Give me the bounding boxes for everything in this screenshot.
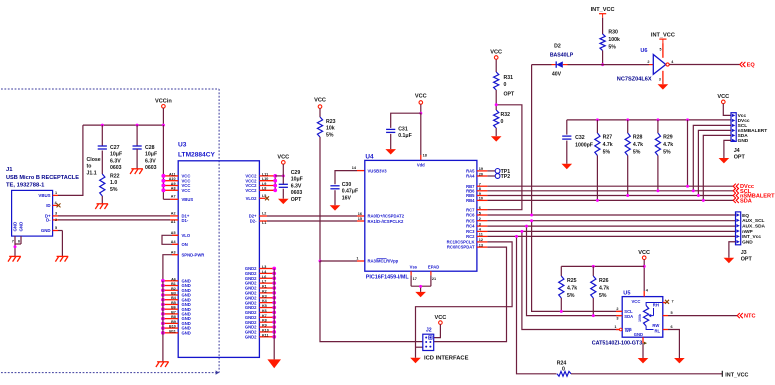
svg-text:A2: A2 <box>171 212 176 216</box>
wire RC6 EQ row <box>487 214 735 216</box>
svg-text:RC2: RC2 <box>466 234 475 239</box>
svg-text:5: 5 <box>671 311 673 315</box>
wire U4 VUSB3V3 to C30 <box>357 170 365 172</box>
svg-text:0603: 0603 <box>291 190 303 196</box>
U3 pins A5 A4 VLO ON tied loop <box>162 235 178 244</box>
svg-text:1: 1 <box>356 256 358 260</box>
wire RC7 to R31 node <box>487 105 522 210</box>
svg-text:R32: R32 <box>501 112 511 118</box>
svg-text:SPND-PWR: SPND-PWR <box>182 252 205 257</box>
resistor R23 <box>317 117 322 137</box>
wire RW to NTC <box>668 315 737 317</box>
svg-text:40V: 40V <box>552 71 562 77</box>
svg-text:R23: R23 <box>326 119 336 125</box>
svg-text:5%: 5% <box>599 293 607 299</box>
svg-text:1: 1 <box>55 191 57 195</box>
svg-text:K5: K5 <box>262 304 267 308</box>
wire J1 GND pin to ground <box>58 230 62 232</box>
svg-text:4.7k: 4.7k <box>663 142 673 148</box>
svg-text:VCCin: VCCin <box>155 99 172 105</box>
dashed isolation boundary top <box>1 88 219 90</box>
wire RC1 ICSPCLK to J2 <box>416 242 513 358</box>
svg-text:RC0/ICSPDAT: RC0/ICSPDAT <box>447 245 475 250</box>
svg-text:U6: U6 <box>640 48 647 54</box>
svg-text:L2: L2 <box>262 212 266 216</box>
svg-text:OPT: OPT <box>734 155 746 161</box>
U5 potentiometer element <box>644 306 649 327</box>
svg-text:B7: B7 <box>171 310 176 314</box>
capacitor C27 <box>101 125 103 146</box>
svg-text:7: 7 <box>12 240 14 244</box>
svg-text:D1-: D1- <box>182 218 189 223</box>
svg-text:RC6: RC6 <box>466 213 475 218</box>
svg-text:U5: U5 <box>623 291 630 297</box>
resistor R29 <box>656 118 659 121</box>
svg-text:13: 13 <box>479 243 483 247</box>
svg-text:C27: C27 <box>110 145 120 151</box>
connector J4 <box>731 113 736 142</box>
svg-text:0603: 0603 <box>110 165 122 171</box>
svg-text:12: 12 <box>479 238 483 242</box>
svg-text:20: 20 <box>479 172 483 176</box>
svg-text:C31: C31 <box>398 127 408 133</box>
svg-text:3: 3 <box>479 222 481 226</box>
svg-text:L8: L8 <box>262 187 266 191</box>
svg-text:10μF: 10μF <box>291 177 303 183</box>
wire EQ input net <box>532 64 552 66</box>
svg-text:1000pF: 1000pF <box>575 142 593 148</box>
test point TP2 <box>487 175 495 177</box>
wire RB5 nSMBALERT row <box>487 195 733 197</box>
svg-text:INT_VCC: INT_VCC <box>591 7 615 13</box>
U3 pin A7 VBUS tied to VCC <box>170 198 178 200</box>
resistor R27 <box>596 118 599 121</box>
svg-text:A11: A11 <box>169 172 176 176</box>
wire MCLR down to ICD J2 <box>320 261 423 342</box>
svg-text:NTC: NTC <box>744 314 756 320</box>
svg-text:11: 11 <box>479 233 483 237</box>
svg-text:D2: D2 <box>554 44 561 50</box>
wire D+ J1 to U3 <box>58 215 170 217</box>
svg-text:RW: RW <box>652 323 659 328</box>
svg-text:GND: GND <box>634 332 643 337</box>
svg-text:5%: 5% <box>567 293 575 299</box>
wire RB6 SCL row <box>487 190 733 192</box>
U4 bottom pins Vss 17 EPAD 21 <box>410 271 412 275</box>
VCC rail to R25 R26 <box>561 265 644 267</box>
U5 RL pin 6 <box>646 326 653 330</box>
connector J3 <box>736 212 741 245</box>
svg-text:TP2: TP2 <box>501 174 511 180</box>
svg-text:10μF: 10μF <box>110 152 122 158</box>
U5 pin 2 SCL stub <box>616 310 622 312</box>
svg-text:0.47μF: 0.47μF <box>342 189 358 195</box>
svg-text:TE, 1932788-1: TE, 1932788-1 <box>6 183 45 189</box>
svg-text:B2: B2 <box>171 287 176 291</box>
svg-text:VCC: VCC <box>717 94 729 100</box>
svg-text:6.3V: 6.3V <box>145 158 156 164</box>
svg-text:L1: L1 <box>262 221 266 225</box>
svg-text:R26: R26 <box>599 278 609 284</box>
svg-text:BAS40LP: BAS40LP <box>550 52 574 58</box>
svg-text:RB4: RB4 <box>466 198 475 203</box>
svg-text:4.7k: 4.7k <box>567 285 577 291</box>
dashed isolation boundary bottom <box>1 372 219 374</box>
svg-text:R22: R22 <box>110 173 120 179</box>
svg-text:ID: ID <box>46 203 50 208</box>
U3 left GND pins A6 B1-B11 <box>163 280 178 282</box>
svg-text:WP: WP <box>625 328 632 333</box>
wire RC4 AUX_SDA row <box>487 225 735 227</box>
VCC port above J4 <box>722 100 726 104</box>
svg-text:9: 9 <box>479 192 481 196</box>
svg-text:5%: 5% <box>110 187 118 193</box>
svg-text:5: 5 <box>660 48 662 52</box>
svg-text:0: 0 <box>504 82 507 88</box>
svg-text:NC7SZ04L6X: NC7SZ04L6X <box>617 77 652 83</box>
svg-text:to: to <box>87 164 92 170</box>
test point TP1 <box>487 170 495 172</box>
svg-text:VCC: VCC <box>638 250 650 256</box>
ground under J3 <box>724 258 735 263</box>
capacitor C29 <box>279 183 288 185</box>
svg-text:L6: L6 <box>262 275 266 279</box>
wire D2 to R30 node to U6 input <box>568 64 603 66</box>
svg-text:16V: 16V <box>342 195 352 201</box>
wire R23 to MCLR and J2 <box>319 137 321 261</box>
svg-text:RL: RL <box>655 328 661 333</box>
svg-text:SDA: SDA <box>624 314 633 319</box>
ground under J4 <box>719 158 730 163</box>
svg-text:7: 7 <box>479 183 481 187</box>
svg-text:A3: A3 <box>171 250 176 254</box>
svg-text:A8: A8 <box>171 187 176 191</box>
svg-text:15: 15 <box>358 217 362 221</box>
wire VCC to J4 pin1 <box>723 104 731 116</box>
svg-text:J2: J2 <box>426 328 432 334</box>
svg-text:EQ: EQ <box>742 213 749 219</box>
J1 pin 3 D+ stub <box>53 215 58 217</box>
svg-text:B11: B11 <box>169 329 176 333</box>
svg-text:OPT: OPT <box>504 92 515 98</box>
wire RL to ground <box>668 330 679 359</box>
svg-text:C29: C29 <box>291 170 301 176</box>
svg-text:VCC: VCC <box>490 49 502 55</box>
ground U3 right <box>267 359 281 368</box>
svg-text:OPT: OPT <box>291 197 302 203</box>
svg-text:A6: A6 <box>171 277 176 281</box>
wire RC3 nWP row <box>487 230 735 232</box>
svg-text:SDA: SDA <box>740 198 752 204</box>
svg-text:CAT5140ZI-100-GT3: CAT5140ZI-100-GT3 <box>592 341 643 347</box>
svg-text:VCC: VCC <box>277 155 289 161</box>
wire R24 to INT_VCC port <box>571 373 722 375</box>
junction VCC U5 rail <box>643 265 646 268</box>
svg-text:GND: GND <box>738 138 749 144</box>
wire J3 GND to ground <box>729 242 736 258</box>
svg-text:B5: B5 <box>171 301 176 305</box>
ground under U4 Vss <box>415 292 426 297</box>
svg-text:B9: B9 <box>171 320 176 324</box>
off-page connector nSMBALERT <box>733 193 736 198</box>
svg-text:J1: J1 <box>6 167 13 173</box>
svg-text:5%: 5% <box>633 150 641 156</box>
svg-text:10k: 10k <box>326 126 335 132</box>
svg-text:U3: U3 <box>178 142 187 149</box>
ground under C32 <box>562 164 573 169</box>
wire VCC to J2 <box>434 324 441 337</box>
svg-text:GND2: GND2 <box>245 334 257 339</box>
capacitor C30 <box>330 185 339 187</box>
svg-text:ICD INTERFACE: ICD INTERFACE <box>424 356 469 362</box>
svg-text:7: 7 <box>672 300 674 304</box>
svg-text:VUSB3V3: VUSB3V3 <box>368 168 388 173</box>
U5 GND stub to ground <box>642 337 644 343</box>
svg-text:A10: A10 <box>169 177 176 181</box>
svg-text:EPAD: EPAD <box>428 265 439 270</box>
svg-text:R31: R31 <box>504 75 514 81</box>
wire U6 output to EQ <box>669 64 740 66</box>
svg-text:Vss: Vss <box>410 265 418 270</box>
svg-text:AUX_SDA: AUX_SDA <box>742 224 765 230</box>
junction Vdd <box>419 112 422 115</box>
svg-text:R30: R30 <box>608 29 618 35</box>
capacitor C31 <box>386 128 395 130</box>
off-page connector SCL <box>733 188 736 193</box>
svg-text:R25: R25 <box>567 278 577 284</box>
wire RC0 ICSPDAT to J2 <box>434 247 507 342</box>
U5 pin 4 VCC stub <box>643 291 645 297</box>
svg-text:K3: K3 <box>262 294 267 298</box>
VCCin power port <box>162 105 166 109</box>
svg-text:17: 17 <box>413 277 417 281</box>
J1 pin 5 GND stub <box>53 230 58 232</box>
svg-text:6: 6 <box>479 206 481 210</box>
svg-text:0603: 0603 <box>145 165 157 171</box>
ground under U6 <box>658 84 669 89</box>
wire VCC2 to C29 rail <box>275 175 283 177</box>
svg-text:R28: R28 <box>633 135 643 141</box>
svg-text:C28: C28 <box>145 145 155 151</box>
VCC port above U5 <box>642 256 646 260</box>
svg-text:PIC16F1459-I/ML: PIC16F1459-I/ML <box>366 275 410 281</box>
wire INT_Vcc down to R24 <box>517 236 557 373</box>
wire AUX_SDA down to U5 SDA <box>527 226 623 316</box>
svg-text:8: 8 <box>479 187 481 191</box>
svg-text:R29: R29 <box>663 135 673 141</box>
resistor R26 <box>592 266 594 276</box>
U5 pin 3 SDA stub <box>616 315 622 317</box>
resistor R30 <box>600 34 605 51</box>
wire Vdd to U4 pin 18 <box>420 113 422 155</box>
ground U3 left <box>157 361 169 363</box>
svg-text:21: 21 <box>432 277 436 281</box>
svg-text:K7: K7 <box>262 314 267 318</box>
svg-text:AUX_SCL: AUX_SCL <box>742 218 764 224</box>
ground at J1 shield <box>9 255 21 257</box>
svg-text:INT_Vcc: INT_Vcc <box>742 234 761 240</box>
U3 pins A2 A1 D1+ D1- <box>170 215 178 217</box>
svg-text:A5: A5 <box>171 231 176 235</box>
INT_VCC power bar at U6 <box>659 38 666 40</box>
J1 pin 1 VBUS stub <box>53 194 58 196</box>
junction R30 node <box>601 63 604 66</box>
svg-text:R27: R27 <box>603 135 613 141</box>
U3 pin L5 VLO2 no-connect <box>259 197 265 199</box>
svg-text:K8: K8 <box>262 319 267 323</box>
capacitor C28 <box>136 125 138 146</box>
resistor R28 <box>626 118 629 121</box>
ground under R22 <box>97 203 109 205</box>
svg-text:B3: B3 <box>171 291 176 295</box>
svg-text:OPT: OPT <box>741 257 753 263</box>
svg-text:100k: 100k <box>638 314 642 322</box>
wire EQ row up to D2 <box>531 65 533 215</box>
off-page connector EQ <box>740 62 743 67</box>
svg-text:K2: K2 <box>262 289 267 293</box>
svg-text:6: 6 <box>18 240 20 244</box>
svg-text:A1: A1 <box>171 220 176 224</box>
svg-text:VCC: VCC <box>415 94 427 100</box>
svg-text:J1.1: J1.1 <box>87 170 97 176</box>
svg-text:L7: L7 <box>262 280 266 284</box>
svg-text:4.7k: 4.7k <box>633 142 643 148</box>
junction VCCin rail <box>101 124 104 127</box>
svg-text:VCC: VCC <box>314 97 326 103</box>
svg-text:INT_VCC: INT_VCC <box>725 372 748 378</box>
svg-text:VCC2: VCC2 <box>245 188 257 193</box>
svg-text:C30: C30 <box>342 182 352 188</box>
svg-text:10μF: 10μF <box>145 152 157 158</box>
U5 RH pin no-connect <box>646 303 663 306</box>
svg-text:3: 3 <box>55 211 57 215</box>
wire VBUS up to VCCin rail <box>58 125 83 195</box>
svg-text:C32: C32 <box>575 135 585 141</box>
U3 pin A3 SPND-PWR to GND <box>172 254 178 256</box>
svg-text:2: 2 <box>479 217 481 221</box>
VCC port above C31 <box>419 101 423 105</box>
svg-text:5: 5 <box>55 226 57 230</box>
ground under R32 <box>491 136 502 141</box>
capacitor C32 <box>566 120 568 135</box>
svg-text:Close: Close <box>87 157 101 163</box>
svg-text:5%: 5% <box>608 44 616 50</box>
ground under RL <box>674 358 685 363</box>
INT_VCC power bar above R30 <box>599 13 606 15</box>
U3 VCC2 pins L11 L10 L9 L8 <box>259 175 275 177</box>
svg-text:18: 18 <box>423 154 427 158</box>
svg-text:2: 2 <box>647 60 649 64</box>
svg-text:L9: L9 <box>262 182 266 186</box>
ground under C28 <box>131 168 143 170</box>
svg-text:5%: 5% <box>326 132 334 138</box>
svg-text:5: 5 <box>479 211 481 215</box>
wire to C31 <box>391 113 421 128</box>
svg-text:LTM2884CY: LTM2884CY <box>178 151 215 158</box>
svg-text:INT_VCC: INT_VCC <box>651 32 675 38</box>
wire RB7 DVcc row <box>487 185 733 187</box>
resistor R31 OPT <box>494 72 499 90</box>
wire MCLR to U4 pin 1 <box>320 260 357 262</box>
wire J4 SDA <box>703 135 731 200</box>
svg-text:K1: K1 <box>262 285 267 289</box>
svg-text:VBUS: VBUS <box>38 193 50 198</box>
VCC port above J2 <box>439 321 443 325</box>
svg-text:L10: L10 <box>262 177 268 181</box>
svg-text:EQ: EQ <box>747 63 756 69</box>
svg-text:5%: 5% <box>663 150 671 156</box>
diode D2 BAS40LP <box>552 64 557 66</box>
svg-text:100k: 100k <box>608 37 620 43</box>
svg-text:A9: A9 <box>171 182 176 186</box>
svg-text:GND: GND <box>182 330 191 335</box>
ground under U5 <box>638 358 649 363</box>
svg-text:D2-: D2- <box>250 219 257 224</box>
svg-text:RH: RH <box>653 303 659 308</box>
ground under C31 <box>385 149 396 154</box>
off-page connector NTC <box>737 313 740 318</box>
svg-text:RA1/D-/ICSPCLK2: RA1/D-/ICSPCLK2 <box>368 219 405 224</box>
svg-text:K6: K6 <box>262 309 267 313</box>
svg-text:ON: ON <box>182 242 188 247</box>
VCC port above R31 <box>494 56 498 60</box>
ground under J2 <box>410 358 421 363</box>
svg-text:GND: GND <box>742 240 753 246</box>
svg-text:3: 3 <box>616 316 618 320</box>
wire AUX_SCL down to U5 SCL <box>532 221 623 312</box>
wire J4 nSMBALERT <box>698 130 731 195</box>
svg-text:VLO2: VLO2 <box>246 196 258 201</box>
J1 pin 4 ID no-connect <box>53 204 58 206</box>
svg-text:VCC: VCC <box>434 315 446 321</box>
off-page connector DVcc <box>733 184 736 189</box>
svg-text:K10: K10 <box>262 328 269 332</box>
svg-text:nWP: nWP <box>742 229 753 235</box>
svg-text:B1: B1 <box>171 282 176 286</box>
svg-text:10: 10 <box>479 197 483 201</box>
wire nWP down to U5 WP <box>522 231 620 329</box>
svg-text:19: 19 <box>479 167 483 171</box>
svg-text:J4: J4 <box>734 148 740 154</box>
wire D2+ U3 to U4 RA0 <box>267 215 357 217</box>
dashed isolation boundary vertical <box>218 89 220 373</box>
junction R31 R32 <box>495 103 498 106</box>
svg-text:RA4: RA4 <box>466 174 475 179</box>
svg-text:K11: K11 <box>262 333 269 337</box>
svg-text:1: 1 <box>614 325 616 329</box>
wire D2- U3 to U4 RA1 <box>267 220 357 222</box>
resistor R32 <box>494 110 499 128</box>
svg-text:R24: R24 <box>557 360 567 366</box>
wire RC2 INT_Vcc row <box>487 235 735 237</box>
wire J4 GND to ground <box>724 140 731 158</box>
resistor R22 <box>100 174 105 196</box>
VCC port above C29 <box>282 161 286 165</box>
svg-text:Vdd: Vdd <box>417 162 425 167</box>
svg-text:16: 16 <box>358 212 362 216</box>
wire RC5 AUX_SCL row <box>487 220 735 222</box>
svg-text:A7: A7 <box>171 195 176 199</box>
svg-text:GND: GND <box>13 222 18 232</box>
U3 right GND2 pins L3 L4 L6 L7 K1-K11 <box>259 268 274 270</box>
svg-text:6.3V: 6.3V <box>291 183 302 189</box>
ground at J1 GND <box>57 255 69 257</box>
off-page connector SDA <box>733 198 736 203</box>
U5 pin 1 WP stub with bubble <box>616 329 619 331</box>
svg-text:4.7k: 4.7k <box>603 142 613 148</box>
svg-text:RC7: RC7 <box>466 207 475 212</box>
U6 ground pin <box>662 71 664 84</box>
